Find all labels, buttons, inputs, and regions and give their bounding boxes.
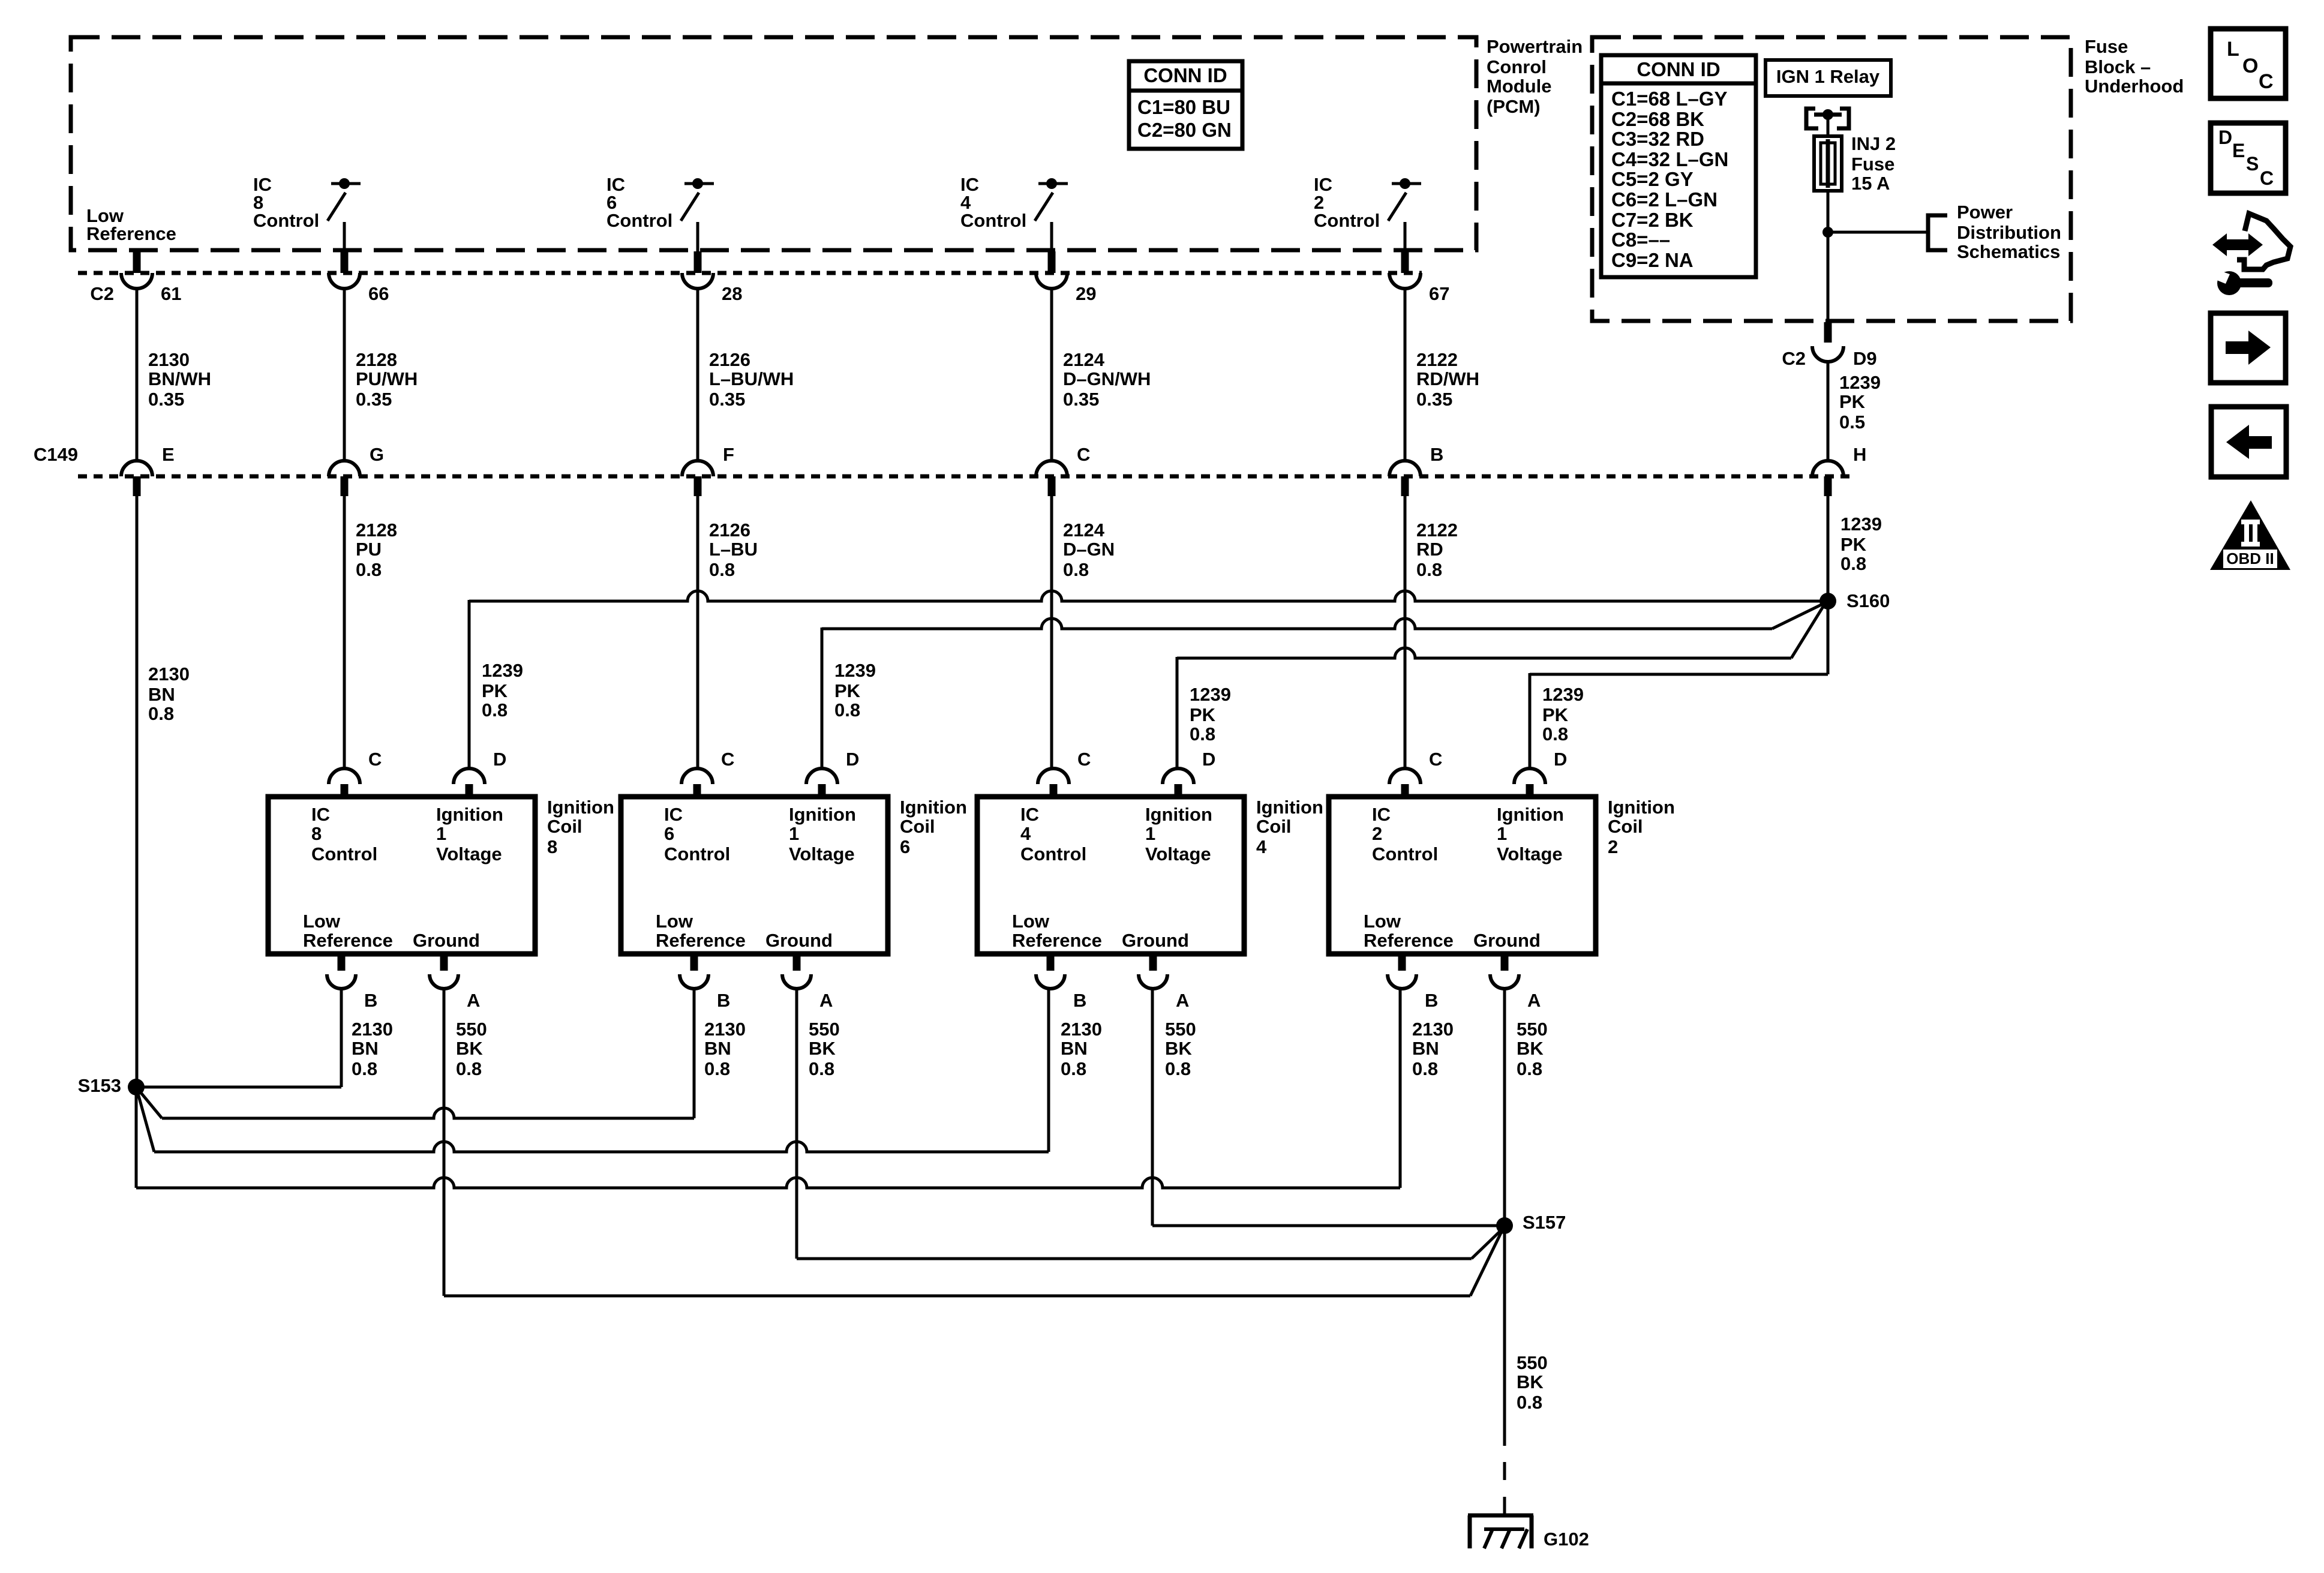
connector C149 pin E: [121, 444, 175, 496]
svg-text:0.35: 0.35: [1416, 389, 1452, 410]
svg-text:F: F: [723, 444, 734, 465]
wire coil 2 pin A through S157 (550 BK): [1503, 987, 1506, 1446]
svg-text:BK: BK: [809, 1038, 836, 1059]
label Low Reference (PCM pin 61): [86, 205, 176, 244]
wire to Power Distribution bracket: [1828, 231, 1927, 234]
svg-text:0.8: 0.8: [1061, 1058, 1086, 1079]
coil 6 pin D connector: [806, 749, 859, 797]
IC 2 Control driver switch inside PCM: [1388, 178, 1421, 251]
forward arrow icon box: [2211, 313, 2286, 383]
connector C149 pin F: [682, 444, 734, 496]
coil 6 pin A connector: [782, 954, 833, 1011]
svg-text:Power: Power: [1957, 202, 2013, 223]
svg-text:0.35: 0.35: [1063, 389, 1099, 410]
wire 2130 BN 0.8 (C149 E to splice S153): [136, 496, 139, 1087]
ignition coil 6 box: [621, 797, 888, 954]
OBD II triangle icon: [2210, 500, 2290, 570]
connector row C2 dashed line: [78, 271, 1422, 275]
wire 2126 L-BU 0.8 (C149 F to coil 6 pin C): [696, 496, 699, 770]
svg-text:Underhood: Underhood: [2085, 76, 2184, 97]
svg-text:2122: 2122: [1416, 520, 1458, 541]
label IC 2 Control: [1314, 174, 1380, 231]
svg-text:B: B: [1425, 990, 1438, 1011]
wire 2124 D-GN/WH 0.35 (pin 29 to C149 C): [1050, 289, 1053, 461]
svg-text:CONN ID: CONN ID: [1637, 58, 1720, 80]
svg-text:0.8: 0.8: [1840, 553, 1866, 574]
svg-text:G102: G102: [1544, 1529, 1589, 1550]
svg-text:550: 550: [1517, 1352, 1548, 1373]
svg-text:0.8: 0.8: [704, 1058, 730, 1079]
svg-text:BN/WH: BN/WH: [148, 368, 211, 389]
svg-text:Ground: Ground: [413, 930, 480, 951]
coil 6 pin B connector: [680, 954, 730, 1011]
svg-text:Control: Control: [960, 210, 1026, 231]
svg-text:C: C: [2259, 70, 2274, 93]
svg-text:Ignition: Ignition: [1608, 797, 1675, 818]
svg-text:CONN ID: CONN ID: [1143, 64, 1227, 86]
svg-text:1: 1: [436, 823, 446, 844]
wire 1239 PK 0.8 (C149 H to splice S160): [1827, 496, 1830, 601]
PCM CONN ID table: [1129, 61, 1242, 149]
svg-text:Schematics: Schematics: [1957, 241, 2060, 262]
svg-text:A: A: [1176, 990, 1189, 1011]
svg-text:Reference: Reference: [1364, 930, 1454, 951]
svg-text:2130: 2130: [352, 1019, 393, 1040]
svg-text:Control: Control: [1020, 843, 1086, 864]
wire 2130 BN/WH 0.35 (pin 61 to C149 E): [136, 289, 139, 461]
svg-text:IC: IC: [1372, 804, 1391, 825]
svg-text:Voltage: Voltage: [1497, 843, 1563, 864]
wire 1239 PK to coil 8 pin D: [469, 591, 1824, 770]
svg-text:Control: Control: [664, 843, 730, 864]
svg-text:PK: PK: [1190, 704, 1216, 725]
coil 8 pin A connector: [430, 954, 480, 1011]
svg-text:Low: Low: [1364, 911, 1401, 932]
svg-text:1239: 1239: [1190, 684, 1231, 705]
svg-text:BK: BK: [1517, 1371, 1544, 1392]
svg-text:L–BU: L–BU: [709, 539, 758, 560]
ignition coil 8 box: [268, 797, 535, 954]
svg-text:A: A: [819, 990, 833, 1011]
splice S157: [1496, 1217, 1513, 1234]
svg-text:C: C: [1429, 749, 1442, 770]
svg-text:IGN 1 Relay: IGN 1 Relay: [1776, 66, 1880, 87]
svg-text:0.35: 0.35: [356, 389, 392, 410]
connector C2 pin 28: [682, 251, 742, 304]
svg-text:0.8: 0.8: [1517, 1392, 1542, 1413]
Power Distribution Schematics bracket: [1928, 215, 1947, 250]
svg-text:Control: Control: [1372, 843, 1438, 864]
svg-text:Conrol: Conrol: [1487, 56, 1547, 77]
svg-text:Module: Module: [1487, 76, 1552, 97]
svg-text:C3=32 RD: C3=32 RD: [1611, 128, 1704, 150]
label Power Distribution Schematics: [1957, 202, 2061, 262]
LOC icon box: [2211, 29, 2286, 98]
label Ignition Coil 6: [900, 797, 967, 857]
wire from fuse to C2-D9 connector: [1827, 191, 1830, 321]
svg-text:B: B: [364, 990, 377, 1011]
svg-text:2126: 2126: [709, 520, 750, 541]
svg-text:D: D: [493, 749, 506, 770]
connector C2 pin 61: [121, 251, 181, 304]
label 2130 BN 0.8 (coil 4 pin B): [1061, 1019, 1102, 1079]
label Ignition Coil 2: [1608, 797, 1675, 857]
Fuse Block Underhood dashed box: [1592, 37, 2071, 321]
svg-text:4: 4: [1020, 823, 1031, 844]
svg-text:2130: 2130: [704, 1019, 746, 1040]
svg-text:2: 2: [1608, 836, 1618, 857]
svg-text:C2=68 BK: C2=68 BK: [1611, 108, 1704, 130]
svg-text:550: 550: [1517, 1019, 1548, 1040]
svg-text:66: 66: [368, 283, 389, 304]
IGN 1 Relay box: [1765, 60, 1891, 96]
svg-text:PK: PK: [1839, 391, 1866, 412]
svg-text:2: 2: [1372, 823, 1382, 844]
svg-text:(PCM): (PCM): [1487, 96, 1541, 117]
svg-text:1239: 1239: [1542, 684, 1584, 705]
svg-text:A: A: [1527, 990, 1541, 1011]
svg-text:C4=32 L–GN: C4=32 L–GN: [1611, 148, 1728, 170]
back arrow icon box: [2211, 407, 2286, 477]
svg-text:Coil: Coil: [1608, 816, 1643, 837]
coil 8 pin B connector: [327, 954, 377, 1011]
svg-text:C: C: [1077, 749, 1091, 770]
svg-text:Coil: Coil: [1256, 816, 1292, 837]
coil 8 pin C connector: [329, 749, 382, 797]
wire coil 6 pin A to S157: [797, 987, 1503, 1259]
svg-text:E: E: [2232, 140, 2245, 161]
svg-text:IC: IC: [311, 804, 330, 825]
svg-text:Reference: Reference: [1012, 930, 1102, 951]
svg-text:C: C: [1077, 444, 1090, 465]
label 550 BK 0.8 (to ground): [1517, 1352, 1548, 1413]
splice S160: [1819, 593, 1836, 610]
svg-text:0.35: 0.35: [709, 389, 745, 410]
coil 2 pin A connector: [1490, 954, 1541, 1011]
label 2130 BN 0.8 (coil 2 pin B): [1412, 1019, 1454, 1079]
svg-text:PK: PK: [482, 680, 508, 701]
svg-text:Ground: Ground: [1122, 930, 1189, 951]
svg-text:0.8: 0.8: [148, 703, 174, 724]
DESC icon box: [2211, 123, 2286, 193]
svg-text:0.8: 0.8: [1542, 724, 1568, 745]
coil 4 pin B connector: [1036, 954, 1086, 1011]
svg-text:1239: 1239: [1839, 372, 1881, 393]
svg-text:Reference: Reference: [86, 223, 176, 244]
svg-text:61: 61: [161, 283, 181, 304]
svg-text:2124: 2124: [1063, 520, 1105, 541]
svg-text:6: 6: [664, 823, 674, 844]
coil 8 pin D connector: [454, 749, 506, 797]
svg-text:29: 29: [1076, 283, 1096, 304]
svg-text:Low: Low: [1012, 911, 1050, 932]
svg-text:1239: 1239: [482, 660, 523, 681]
svg-text:D: D: [1202, 749, 1215, 770]
svg-text:A: A: [467, 990, 480, 1011]
coil 2 pin D connector: [1514, 749, 1567, 797]
coil 4 pin C connector: [1038, 749, 1091, 797]
wire 1239 PK to coil 4 pin D: [1177, 605, 1824, 770]
svg-text:IC: IC: [664, 804, 683, 825]
svg-text:Reference: Reference: [656, 930, 746, 951]
connector C149 pin H: [1812, 444, 1866, 496]
svg-text:C6=2 L–GN: C6=2 L–GN: [1611, 188, 1718, 211]
svg-text:Voltage: Voltage: [1145, 843, 1211, 864]
svg-text:C2=80 GN: C2=80 GN: [1137, 119, 1232, 141]
Fuse block CONN ID table: [1601, 55, 1756, 277]
svg-text:Ignition: Ignition: [900, 797, 967, 818]
svg-text:L–BU/WH: L–BU/WH: [709, 368, 794, 389]
wire coil 4 pin B to S153: [136, 987, 1049, 1152]
svg-text:0.8: 0.8: [352, 1058, 377, 1079]
svg-text:C: C: [2260, 167, 2274, 189]
svg-text:C9=2 NA: C9=2 NA: [1611, 249, 1694, 271]
svg-text:OBD II: OBD II: [2226, 550, 2274, 568]
svg-text:Coil: Coil: [900, 816, 935, 837]
svg-text:0.8: 0.8: [1165, 1058, 1191, 1079]
svg-text:1: 1: [1145, 823, 1155, 844]
svg-text:2130: 2130: [1412, 1019, 1454, 1040]
svg-text:RD: RD: [1416, 539, 1443, 560]
svg-text:BK: BK: [456, 1038, 483, 1059]
svg-text:PK: PK: [1840, 534, 1867, 555]
svg-text:Control: Control: [606, 210, 672, 231]
label Fuse Block - Underhood: [2085, 36, 2184, 97]
svg-text:8: 8: [311, 823, 322, 844]
svg-text:2130: 2130: [148, 664, 190, 685]
dashed continuation of 550 BK: [1503, 1462, 1506, 1480]
ignition coil 4 box: [977, 797, 1244, 954]
wire coil 8 pin B to S153: [136, 987, 341, 1087]
svg-text:2128: 2128: [356, 520, 397, 541]
wire coil 2 pin B to S153: [136, 987, 1400, 1188]
INJ 2 Fuse 15 A fuse symbol: [1814, 136, 1842, 191]
svg-text:Reference: Reference: [303, 930, 393, 951]
wire 1239 PK 0.5 (D9 to C149 H): [1827, 362, 1830, 461]
svg-text:550: 550: [809, 1019, 840, 1040]
svg-text:BK: BK: [1165, 1038, 1192, 1059]
svg-text:Voltage: Voltage: [789, 843, 855, 864]
svg-text:0.5: 0.5: [1839, 412, 1865, 433]
svg-text:E: E: [162, 444, 175, 465]
svg-text:RD/WH: RD/WH: [1416, 368, 1479, 389]
svg-text:1: 1: [1497, 823, 1507, 844]
svg-text:Ignition: Ignition: [547, 797, 614, 818]
svg-text:Low: Low: [656, 911, 693, 932]
svg-text:2130: 2130: [1061, 1019, 1102, 1040]
IC 8 Control driver switch inside PCM: [328, 178, 361, 251]
svg-text:C7=2 BK: C7=2 BK: [1611, 209, 1694, 231]
connector C2 pin D9 (fuse block): [1782, 322, 1876, 369]
coil 6 pin C connector: [681, 749, 734, 797]
svg-text:0.8: 0.8: [356, 559, 382, 580]
label 550 BK 0.8 (coil 4 pin A): [1165, 1019, 1196, 1079]
connector C149 pin B: [1389, 444, 1443, 496]
svg-text:B: B: [717, 990, 730, 1011]
svg-text:Fuse: Fuse: [1851, 154, 1894, 175]
label 550 BK 0.8 (coil 8 pin A): [456, 1019, 487, 1079]
svg-text:2130: 2130: [148, 349, 190, 370]
ignition coil 2 box: [1329, 797, 1596, 954]
label IC 8 Control: [253, 174, 319, 231]
svg-text:PK: PK: [834, 680, 861, 701]
svg-text:550: 550: [1165, 1019, 1196, 1040]
svg-text:S153: S153: [78, 1075, 121, 1096]
svg-text:D: D: [2218, 127, 2232, 148]
svg-text:D9: D9: [1853, 348, 1877, 369]
svg-text:D: D: [846, 749, 859, 770]
svg-text:0.8: 0.8: [834, 700, 860, 721]
svg-text:0.8: 0.8: [1190, 724, 1215, 745]
svg-text:1: 1: [789, 823, 799, 844]
svg-text:C1=68 L–GY: C1=68 L–GY: [1611, 88, 1728, 110]
svg-text:PU/WH: PU/WH: [356, 368, 418, 389]
svg-text:BN: BN: [704, 1038, 731, 1059]
label 2130 BN 0.8 (coil 6 pin B): [704, 1019, 746, 1079]
svg-text:B: B: [1430, 444, 1443, 465]
svg-text:Ignition: Ignition: [436, 804, 503, 825]
svg-text:2126: 2126: [709, 349, 750, 370]
wire 2126 L-BU/WH 0.35 (pin 28 to C149 F): [696, 289, 699, 461]
wire 2122 RD/WH 0.35 (pin 67 to C149 B): [1404, 289, 1407, 461]
label 550 BK 0.8 (coil 2 pin A): [1517, 1019, 1548, 1079]
svg-text:G: G: [370, 444, 384, 465]
svg-text:L: L: [2227, 38, 2239, 61]
svg-text:C8=––: C8=––: [1611, 229, 1670, 251]
svg-text:IC: IC: [1020, 804, 1039, 825]
svg-text:Powertrain: Powertrain: [1487, 36, 1583, 57]
svg-text:0.8: 0.8: [1416, 559, 1442, 580]
IC 6 Control driver switch inside PCM: [681, 178, 714, 251]
svg-text:C2: C2: [90, 283, 114, 304]
svg-text:4: 4: [1256, 836, 1267, 857]
svg-text:H: H: [1853, 444, 1866, 465]
svg-text:C2: C2: [1782, 348, 1806, 369]
connector C149 pin C: [1036, 444, 1090, 496]
svg-text:Control: Control: [311, 843, 377, 864]
IC 4 Control driver switch inside PCM: [1035, 178, 1068, 251]
wire 2122 RD 0.8 (C149 B to coil 2 pin C): [1404, 496, 1407, 770]
svg-text:INJ 2: INJ 2: [1851, 133, 1896, 154]
wire coil 4 pin A to S157: [1152, 987, 1505, 1226]
coil 2 pin C connector: [1389, 749, 1442, 797]
svg-text:Block –: Block –: [2085, 56, 2151, 77]
coil 4 pin D connector: [1163, 749, 1215, 797]
coil 2 pin B connector: [1388, 954, 1438, 1011]
connector C2 pin 66: [329, 251, 389, 304]
svg-text:0.8: 0.8: [1063, 559, 1089, 580]
PCM module dashed box: [71, 37, 1476, 250]
svg-text:1239: 1239: [1840, 514, 1882, 535]
svg-text:S160: S160: [1846, 590, 1890, 611]
wire 2128 PU 0.8 (C149 G to coil 8 pin C): [343, 496, 346, 770]
connector C2 pin 29: [1036, 251, 1096, 304]
junction node in fuse block: [1822, 227, 1833, 238]
wire 2128 PU/WH 0.35 (pin 66 to C149 G): [343, 289, 346, 461]
svg-text:Fuse: Fuse: [2085, 36, 2128, 57]
label INJ 2 Fuse 15 A: [1851, 133, 1896, 194]
svg-text:D–GN/WH: D–GN/WH: [1063, 368, 1151, 389]
svg-text:C1=80 BU: C1=80 BU: [1137, 96, 1230, 118]
svg-text:0.8: 0.8: [709, 559, 735, 580]
svg-text:B: B: [1073, 990, 1086, 1011]
svg-text:Low: Low: [303, 911, 341, 932]
label IC 6 Control: [606, 174, 672, 231]
svg-text:BK: BK: [1517, 1038, 1544, 1059]
wire 2124 D-GN 0.8 (C149 C to coil 4 pin C): [1050, 496, 1053, 770]
svg-text:Ground: Ground: [765, 930, 833, 951]
connector C2 pin 67: [1389, 251, 1449, 304]
svg-text:8: 8: [547, 836, 557, 857]
svg-text:Distribution: Distribution: [1957, 222, 2061, 243]
svg-text:67: 67: [1429, 283, 1449, 304]
PCM label Powertrain Conrol Module (PCM): [1487, 36, 1583, 117]
ground G102 symbol: [1468, 1515, 1533, 1548]
svg-text:PU: PU: [356, 539, 382, 560]
svg-text:0.35: 0.35: [148, 389, 184, 410]
svg-text:Voltage: Voltage: [436, 843, 502, 864]
label 550 BK 0.8 (coil 6 pin A): [809, 1019, 840, 1079]
svg-text:Coil: Coil: [547, 816, 582, 837]
coil 4 pin A connector: [1139, 954, 1189, 1011]
svg-text:S: S: [2246, 153, 2259, 175]
wire coil 6 pin B to S153: [136, 987, 694, 1118]
svg-text:PK: PK: [1542, 704, 1569, 725]
svg-text:0.8: 0.8: [482, 700, 508, 721]
label Ignition Coil 8: [547, 797, 614, 857]
svg-text:0.8: 0.8: [1517, 1058, 1542, 1079]
svg-text:Ground: Ground: [1473, 930, 1541, 951]
svg-text:S157: S157: [1523, 1212, 1566, 1233]
connector C149 pin G: [329, 444, 384, 496]
connector row C149 dashed line: [78, 475, 1855, 479]
svg-text:2124: 2124: [1063, 349, 1105, 370]
label 2130 BN 0.8 (coil 8 pin B): [352, 1019, 393, 1079]
svg-text:Ignition: Ignition: [789, 804, 856, 825]
svg-text:550: 550: [456, 1019, 487, 1040]
svg-text:O: O: [2242, 55, 2258, 77]
splice S153: [128, 1079, 145, 1095]
svg-text:15 A: 15 A: [1851, 173, 1890, 194]
wire 1239 PK to coil 6 pin D: [822, 604, 1824, 770]
svg-text:28: 28: [722, 283, 742, 304]
svg-text:0.8: 0.8: [809, 1058, 834, 1079]
svg-text:BN: BN: [352, 1038, 379, 1059]
svg-text:BN: BN: [148, 684, 175, 705]
svg-text:Ignition: Ignition: [1145, 804, 1212, 825]
service/diagnosis icon (arrow, outline, wrench): [2212, 214, 2290, 295]
svg-text:C: C: [368, 749, 382, 770]
svg-text:D–GN: D–GN: [1063, 539, 1115, 560]
label Ignition Coil 4: [1256, 797, 1323, 857]
svg-text:0.8: 0.8: [456, 1058, 482, 1079]
IGN 1 relay contact symbol: [1806, 109, 1849, 137]
wire 1239 PK to coil 2 pin D: [1530, 605, 1828, 770]
svg-text:C149: C149: [34, 444, 78, 465]
svg-text:C: C: [721, 749, 734, 770]
svg-text:C5=2 GY: C5=2 GY: [1611, 168, 1694, 190]
svg-text:Control: Control: [253, 210, 319, 231]
svg-text:6: 6: [900, 836, 910, 857]
svg-text:0.8: 0.8: [1412, 1058, 1438, 1079]
svg-text:Ignition: Ignition: [1497, 804, 1564, 825]
svg-text:Ignition: Ignition: [1256, 797, 1323, 818]
wire coil 8 pin A to S157: [444, 987, 1503, 1296]
svg-text:BN: BN: [1412, 1038, 1439, 1059]
svg-text:2122: 2122: [1416, 349, 1458, 370]
svg-text:BN: BN: [1061, 1038, 1088, 1059]
svg-text:D: D: [1554, 749, 1567, 770]
